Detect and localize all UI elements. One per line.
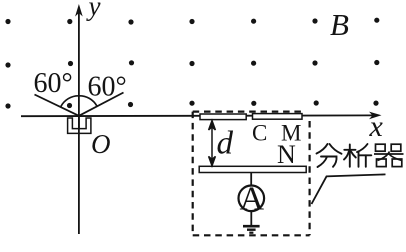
bottom plate N — [199, 166, 306, 172]
wire ammeter to ground — [250, 211, 252, 226]
velocity line left 60 deg — [35, 95, 79, 116]
svg-text:60°: 60° — [34, 68, 73, 99]
wire plate to ammeter — [250, 173, 252, 187]
ammeter A — [239, 186, 265, 212]
svg-text:O: O — [91, 129, 111, 159]
svg-text:C: C — [252, 121, 267, 146]
Chinese label: xi (analyzer char 2) — [344, 144, 371, 167]
d dimension arrow — [209, 121, 216, 166]
y-axis arrowhead — [75, 4, 83, 17]
velocity line right 60 deg — [79, 93, 124, 116]
svg-text:y: y — [86, 0, 101, 21]
leader line to analyzer label — [312, 174, 386, 204]
x-axis arrowhead — [369, 112, 382, 120]
svg-text:N: N — [277, 140, 296, 169]
collector cup at origin — [68, 118, 91, 133]
Chinese label: fen (analyzer char 1) — [317, 144, 342, 167]
x-axis — [21, 114, 374, 117]
svg-text:d: d — [217, 126, 234, 162]
angle arc right — [79, 96, 97, 106]
plate top-left segment — [200, 114, 246, 120]
y-axis — [78, 11, 80, 234]
analyzer dashed box — [193, 112, 310, 236]
angle arc left — [61, 96, 79, 107]
svg-text:B: B — [330, 7, 349, 42]
plate top-right segment M — [253, 114, 303, 120]
svg-text:60°: 60° — [88, 72, 127, 103]
field dots (B out of page) — [5, 18, 379, 109]
Chinese label: qi (analyzer char 3) — [374, 144, 404, 166]
y-axis through cup — [78, 116, 80, 133]
svg-text:x: x — [369, 110, 384, 143]
ground symbol — [243, 226, 260, 233]
